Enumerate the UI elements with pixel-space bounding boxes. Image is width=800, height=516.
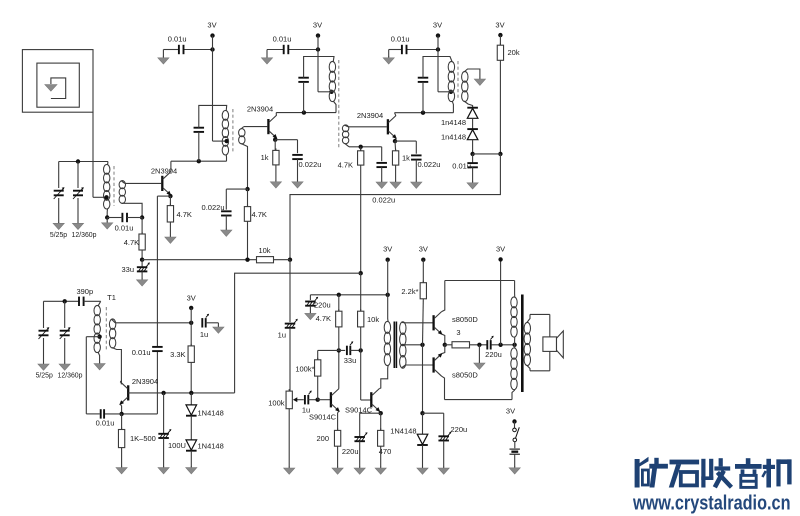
svg-text:20k: 20k [508,48,520,57]
svg-text:0.022u: 0.022u [299,160,322,169]
svg-text:220u: 220u [485,350,502,359]
svg-text:0.01u: 0.01u [168,35,187,44]
svg-text:1k: 1k [402,153,410,162]
svg-text:s8050D: s8050D [452,371,478,380]
svg-text:4.7K: 4.7K [252,210,267,219]
svg-text:1N4148: 1N4148 [198,408,224,417]
svg-text:2N3904: 2N3904 [247,105,273,114]
svg-text:S9014C: S9014C [309,413,337,422]
svg-text:3V: 3V [419,245,428,254]
svg-text:3V: 3V [187,294,196,303]
svg-text:3V: 3V [496,245,505,254]
svg-text:3V: 3V [207,21,216,30]
svg-text:100k*: 100k* [295,365,314,374]
svg-text:390p: 390p [76,287,93,296]
svg-text:3: 3 [456,328,460,337]
svg-text:0.01u: 0.01u [132,348,151,357]
svg-text:0.022u: 0.022u [202,203,225,212]
svg-text:2N3904: 2N3904 [357,111,383,120]
svg-text:3.3K: 3.3K [170,350,185,359]
svg-text:0.01u: 0.01u [115,224,134,233]
svg-text:10k: 10k [367,315,379,324]
svg-text:0.01u: 0.01u [391,35,410,44]
svg-text:220u: 220u [314,301,331,310]
svg-text:10k: 10k [258,246,270,255]
svg-text:100k: 100k [268,398,285,407]
svg-text:4.7K: 4.7K [177,210,192,219]
svg-text:12/360p: 12/360p [72,232,97,239]
svg-text:1N4148: 1N4148 [390,426,416,435]
svg-text:1k: 1k [261,153,269,162]
svg-text:2N3904: 2N3904 [132,377,158,386]
svg-text:5/25p: 5/25p [50,232,67,239]
svg-text:0.022u: 0.022u [372,195,395,204]
svg-text:1n4148: 1n4148 [441,118,466,127]
svg-text:0.01u: 0.01u [273,35,292,44]
svg-text:1K–500: 1K–500 [130,434,156,443]
svg-text:3V: 3V [313,21,322,30]
svg-text:4.7K: 4.7K [316,314,331,323]
svg-text:33u: 33u [344,356,357,365]
svg-text:3V: 3V [506,406,515,415]
svg-text:1N4148: 1N4148 [198,441,224,450]
svg-text:3V: 3V [495,21,504,30]
svg-text:s8050D: s8050D [452,315,478,324]
svg-text:1u: 1u [200,330,208,339]
svg-text:12/360p: 12/360p [58,373,83,380]
svg-text:3V: 3V [383,245,392,254]
svg-text:33u: 33u [121,265,134,274]
svg-text:5/25p: 5/25p [36,373,53,380]
svg-text:200: 200 [316,434,329,443]
svg-text:1n4148: 1n4148 [441,133,466,142]
svg-text:www.crystalradio.cn: www.crystalradio.cn [632,493,790,515]
svg-text:220u: 220u [342,447,359,456]
svg-text:T1: T1 [107,293,116,302]
svg-text:100U: 100U [168,441,186,450]
svg-text:220u: 220u [451,425,468,434]
svg-text:4.7K: 4.7K [338,160,353,169]
svg-text:0.01u: 0.01u [452,162,471,171]
svg-text:1u: 1u [278,331,286,340]
svg-text:0.022u: 0.022u [418,160,441,169]
svg-text:3V: 3V [433,21,442,30]
svg-text:0.01u: 0.01u [96,419,115,428]
svg-text:4.7K: 4.7K [124,238,139,247]
svg-text:2N3904: 2N3904 [151,167,177,176]
svg-text:2.2k*: 2.2k* [401,287,418,296]
